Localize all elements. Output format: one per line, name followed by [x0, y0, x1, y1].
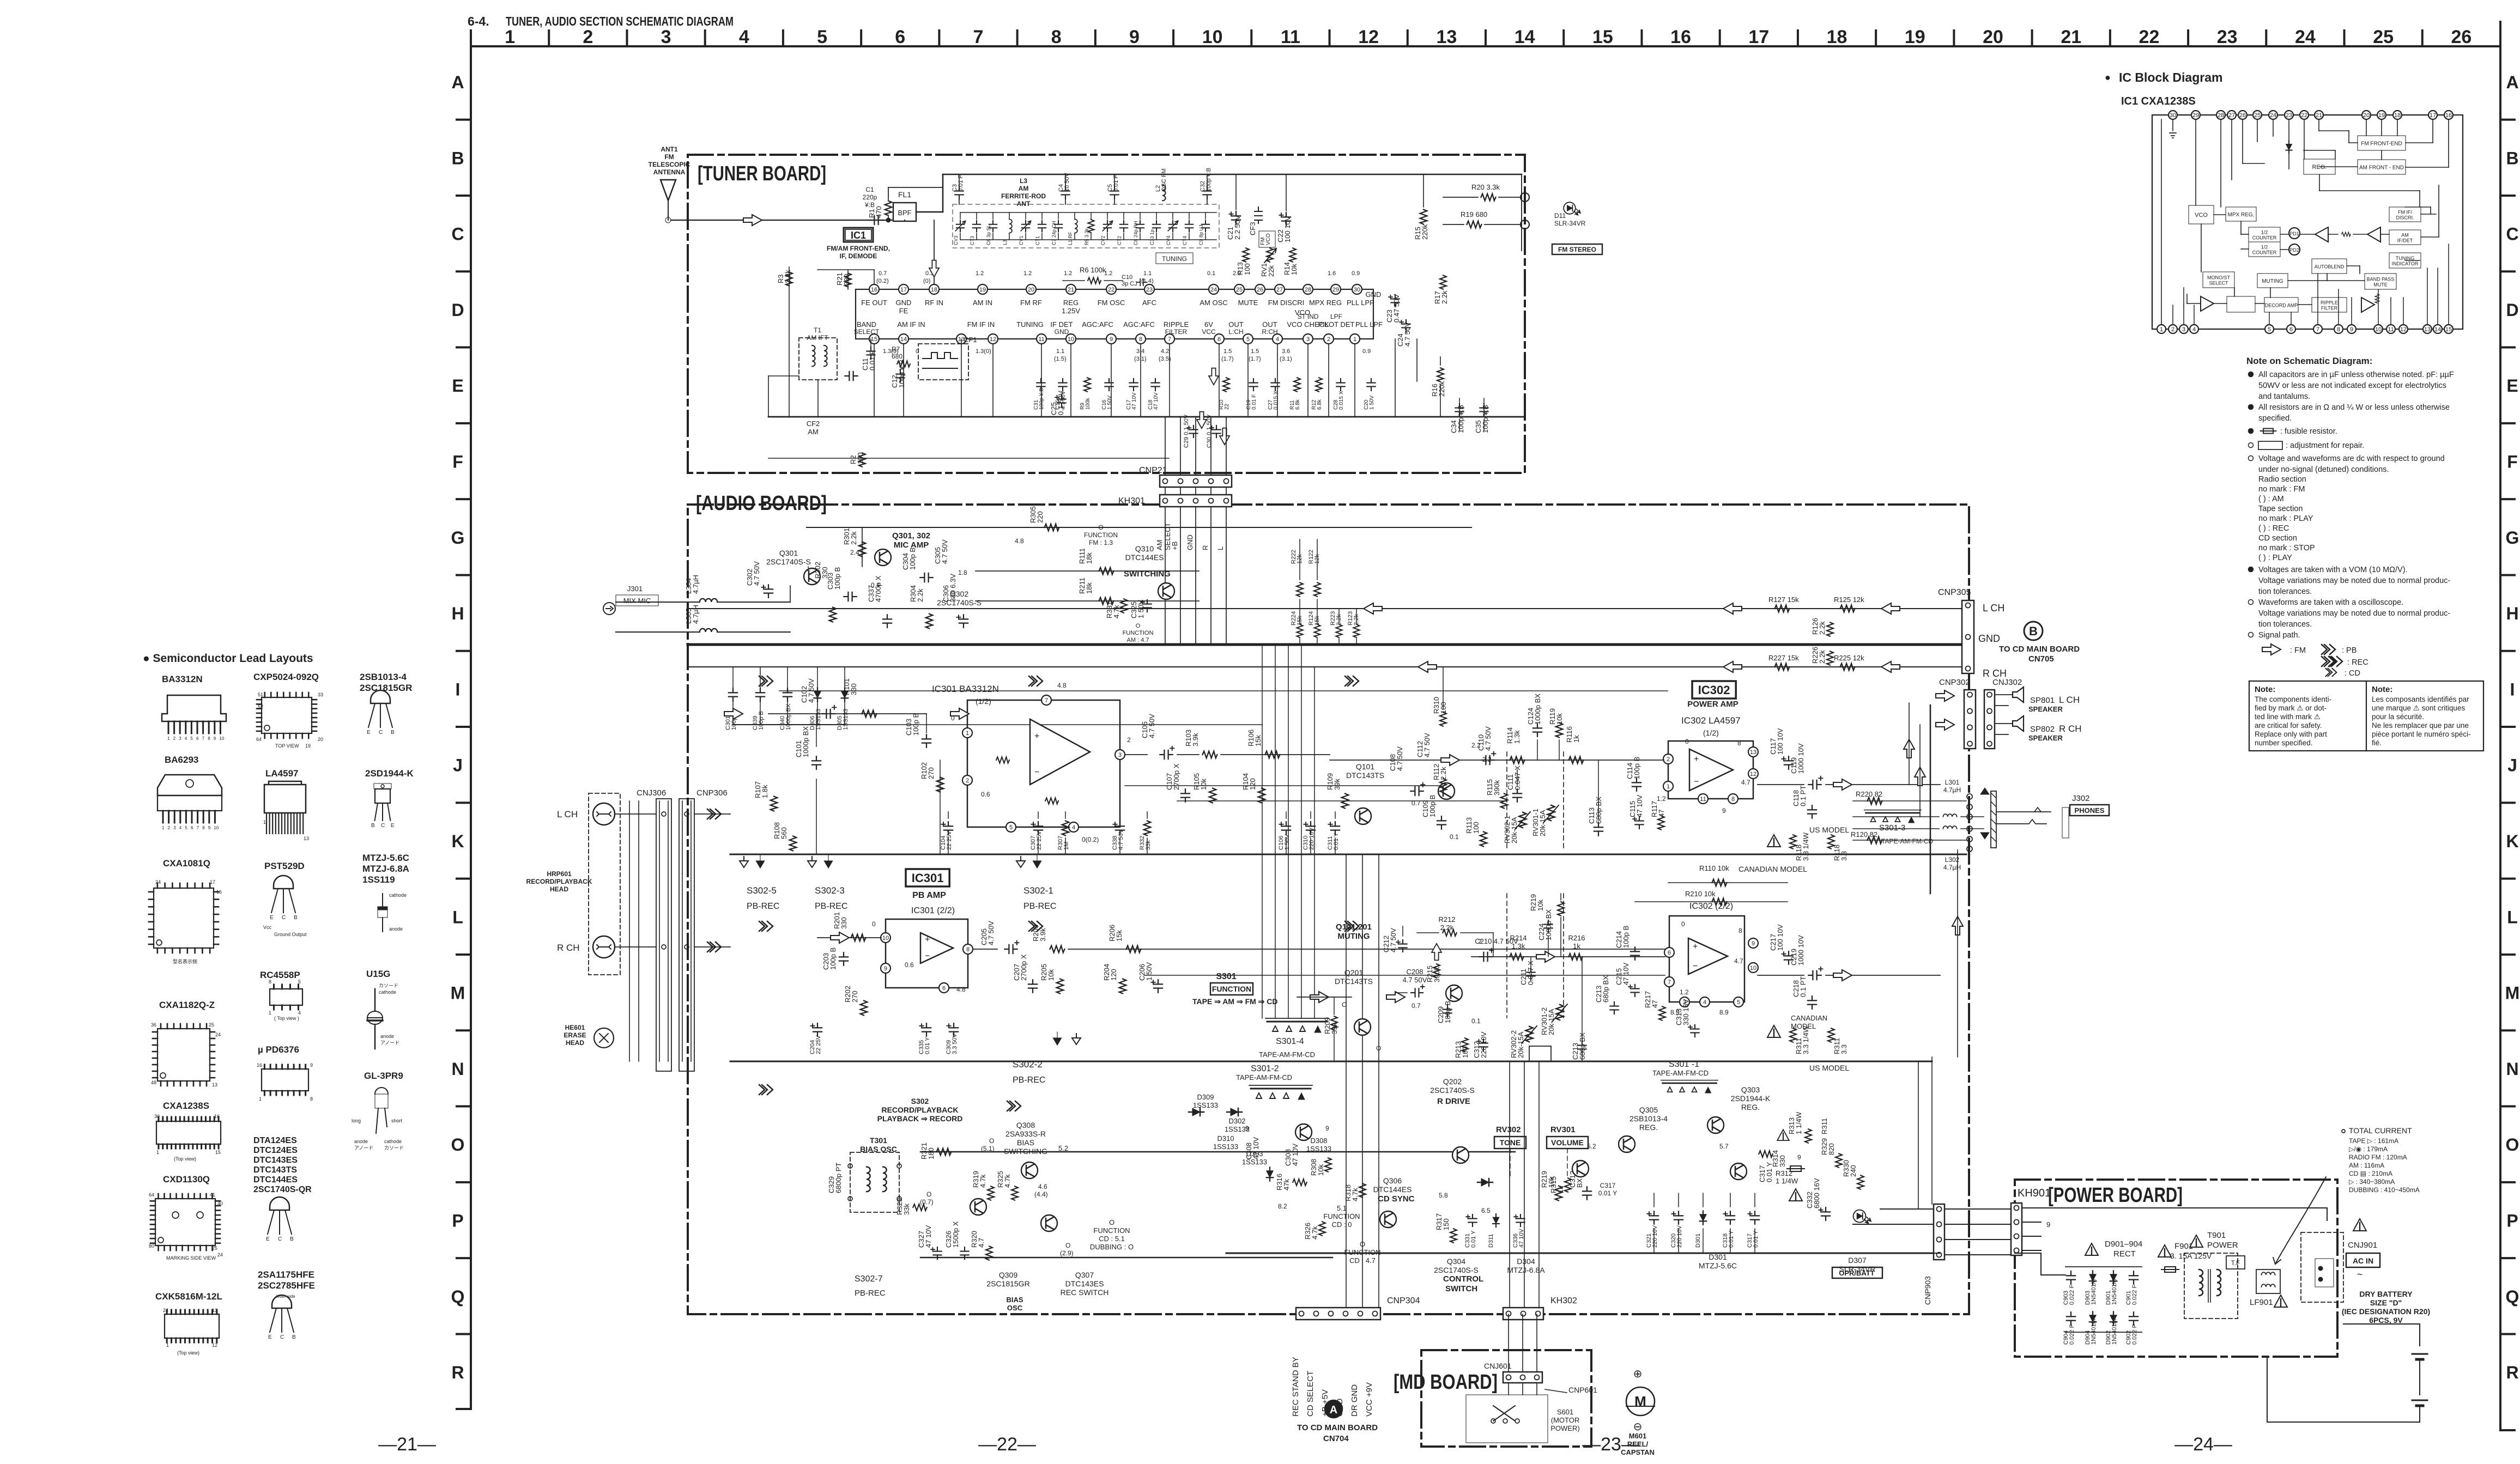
svg-text:RV302: RV302 — [1496, 1125, 1521, 1134]
svg-text:R311: R311 — [1820, 1118, 1828, 1134]
svg-text:CD ▤ : 210mA: CD ▤ : 210mA — [2349, 1170, 2392, 1177]
svg-text:2.9: 2.9 — [1233, 270, 1241, 277]
svg-text:anode: anode — [389, 926, 403, 932]
svg-text:CNP903: CNP903 — [1923, 1276, 1932, 1305]
svg-text:IF/DET: IF/DET — [2397, 238, 2413, 244]
svg-text:(3.5): (3.5) — [1159, 356, 1171, 362]
svg-text:VOLUME: VOLUME — [1551, 1138, 1584, 1147]
svg-text:E: E — [391, 823, 395, 829]
svg-text:CD section: CD section — [2258, 534, 2297, 543]
svg-text:MUTING: MUTING — [2262, 278, 2283, 284]
svg-text:CNJ302: CNJ302 — [1992, 678, 2022, 687]
svg-text:36: 36 — [151, 1022, 156, 1028]
svg-text:U15G: U15G — [366, 969, 390, 979]
svg-text:SELECT: SELECT — [2209, 281, 2228, 286]
svg-text:SWITCH: SWITCH — [1445, 1284, 1477, 1293]
svg-text:1.1: 1.1 — [1056, 348, 1064, 355]
svg-text:FM IF/: FM IF/ — [2398, 210, 2412, 215]
svg-text:C: C — [381, 823, 385, 829]
svg-text:22: 22 — [2301, 112, 2307, 119]
svg-text:2.2: 2.2 — [1471, 742, 1481, 749]
svg-text:GND: GND — [1366, 290, 1382, 299]
svg-text:FL1: FL1 — [898, 190, 911, 199]
svg-text:B: B — [294, 915, 298, 921]
svg-text:MUTE: MUTE — [2373, 282, 2388, 288]
svg-text:VCC: VCC — [1202, 328, 1216, 336]
svg-text:(3.1): (3.1) — [1280, 356, 1292, 362]
svg-text:D311: D311 — [1488, 1234, 1494, 1248]
svg-text:CD SYNC: CD SYNC — [1378, 1194, 1415, 1204]
svg-text:US MODEL: US MODEL — [1809, 825, 1849, 834]
svg-text:8: 8 — [310, 1096, 313, 1102]
svg-text:12: 12 — [212, 1342, 217, 1348]
svg-text:C3170.01 Y: C3170.01 Y — [1598, 1182, 1617, 1197]
svg-text:OPR/BATT: OPR/BATT — [1839, 1269, 1875, 1277]
svg-text:8: 8 — [1738, 927, 1742, 934]
svg-text:2SC2785HFE: 2SC2785HFE — [258, 1280, 315, 1291]
svg-text:CT2: CT2 — [1117, 236, 1122, 245]
svg-text:7: 7 — [1168, 336, 1171, 343]
svg-text:(4.4): (4.4) — [1034, 1190, 1048, 1198]
svg-text:5: 5 — [298, 979, 301, 985]
svg-text:0(0.2): 0(0.2) — [1082, 836, 1099, 843]
svg-text:Q: Q — [2506, 1287, 2519, 1307]
svg-text:LPF: LPF — [1330, 313, 1342, 320]
svg-text:6: 6 — [1217, 336, 1221, 343]
svg-text:(1.7): (1.7) — [1249, 356, 1261, 362]
svg-text:B: B — [391, 730, 395, 736]
svg-text:6: 6 — [1668, 950, 1671, 956]
svg-text:5.7: 5.7 — [1719, 1143, 1729, 1150]
svg-text:4: 4 — [179, 825, 182, 830]
svg-text:8: 8 — [208, 736, 210, 741]
svg-text:BA3312N: BA3312N — [162, 674, 203, 684]
svg-text:IC301 BA3312N: IC301 BA3312N — [932, 684, 999, 694]
svg-text:30: 30 — [2170, 112, 2176, 119]
svg-text:(0): (0) — [923, 278, 930, 284]
svg-text:RV301: RV301 — [1550, 1125, 1576, 1134]
svg-text:C2061 50V: C2061 50V — [1138, 962, 1153, 981]
svg-text:16: 16 — [216, 889, 222, 895]
svg-text:11: 11 — [2388, 326, 2394, 333]
svg-text:20: 20 — [318, 737, 323, 742]
svg-text:TAPE-AM-FM-CD: TAPE-AM-FM-CD — [1259, 1050, 1315, 1059]
svg-text:24: 24 — [2270, 112, 2276, 119]
svg-text:Note:: Note: — [2372, 685, 2392, 694]
svg-text:cathode: cathode — [389, 892, 407, 898]
svg-text:9: 9 — [1245, 1125, 1249, 1132]
svg-text:—22—: —22— — [978, 1434, 1036, 1455]
svg-text:FE: FE — [899, 307, 908, 315]
svg-text:PD2: PD2 — [2289, 247, 2299, 253]
svg-text:J: J — [453, 756, 463, 775]
svg-text:4.8: 4.8 — [1057, 682, 1067, 689]
svg-text:R126.8k: R126.8k — [1311, 399, 1323, 410]
svg-text:: REC: : REC — [2347, 658, 2368, 667]
svg-text:CF2AM: CF2AM — [807, 420, 820, 436]
svg-text:E: E — [266, 1236, 270, 1242]
svg-text:I: I — [456, 679, 461, 699]
svg-text:GND: GND — [1978, 633, 2000, 644]
svg-text:CN704: CN704 — [1323, 1434, 1349, 1443]
svg-text:P: P — [452, 1211, 463, 1231]
svg-text:TUNING: TUNING — [1162, 255, 1187, 263]
svg-text:( Top view ): ( Top view ) — [274, 1016, 299, 1021]
svg-text:51: 51 — [258, 692, 263, 697]
svg-text:A: A — [451, 72, 464, 92]
svg-text:1/2: 1/2 — [2261, 230, 2268, 235]
svg-text:R6 100k: R6 100k — [1080, 266, 1106, 274]
svg-text:D901–904: D901–904 — [2105, 1240, 2142, 1249]
svg-text:R CH: R CH — [2059, 724, 2082, 734]
svg-text:23: 23 — [2286, 112, 2292, 119]
svg-text:10: 10 — [1068, 336, 1074, 343]
svg-text:Ne les remplacer que par une: Ne les remplacer que par une — [2372, 721, 2469, 730]
svg-text:4: 4 — [185, 736, 187, 741]
svg-text:9: 9 — [1110, 336, 1113, 343]
svg-text:POWER: POWER — [2207, 1241, 2238, 1250]
svg-text:R110 10k: R110 10k — [1699, 864, 1729, 872]
svg-text:AGC:AFC: AGC:AFC — [1123, 320, 1155, 329]
svg-text:3.4: 3.4 — [1136, 348, 1144, 355]
svg-text:FM STEREO: FM STEREO — [1558, 246, 1596, 253]
svg-text:10: 10 — [1202, 27, 1223, 47]
svg-text:16: 16 — [2445, 112, 2452, 119]
svg-text:DUBBING : 410~450mA: DUBBING : 410~450mA — [2349, 1186, 2420, 1194]
svg-text:TOTAL CURRENT: TOTAL CURRENT — [2349, 1126, 2412, 1135]
svg-text:25: 25 — [212, 1246, 217, 1251]
svg-text:letter side: letter side — [276, 1294, 295, 1299]
svg-text:0: 0 — [1681, 920, 1685, 928]
svg-text:H: H — [2506, 604, 2518, 623]
svg-text:2: 2 — [168, 825, 171, 830]
svg-text:no mark : STOP: no mark : STOP — [2258, 544, 2315, 552]
svg-text:Note:: Note: — [2255, 685, 2275, 694]
svg-text:20: 20 — [1028, 287, 1034, 293]
svg-text:9: 9 — [310, 1062, 313, 1068]
svg-text:TAPE ▷ : 161mA: TAPE ▷ : 161mA — [2349, 1137, 2398, 1145]
svg-text:AC IN: AC IN — [2353, 1256, 2373, 1265]
svg-text:R115390k: R115390k — [1486, 779, 1501, 795]
svg-text:1.2: 1.2 — [1680, 988, 1689, 996]
svg-text:8.9: 8.9 — [1719, 1009, 1729, 1016]
svg-text:4.2: 4.2 — [1161, 348, 1169, 355]
svg-text:−: − — [1034, 768, 1039, 777]
svg-text:CD SELECT: CD SELECT — [1306, 1371, 1315, 1417]
svg-text:PHONES: PHONES — [2075, 806, 2105, 815]
svg-text:64: 64 — [256, 737, 262, 742]
svg-text:13: 13 — [2424, 326, 2431, 333]
svg-text:1: 1 — [2160, 326, 2163, 333]
svg-text:TUNING: TUNING — [1016, 320, 1044, 329]
svg-text:[AUDIO BOARD]: [AUDIO BOARD] — [696, 492, 827, 515]
svg-text:50WV or less are not indic: 50WV or less are not indicated except fo… — [2258, 381, 2446, 390]
svg-text:RF IN: RF IN — [925, 299, 943, 307]
svg-text:カソード: カソード — [379, 983, 398, 988]
svg-text:R1410k: R1410k — [1283, 262, 1298, 275]
svg-text:AM FRONT - END: AM FRONT - END — [2359, 165, 2404, 171]
svg-text:15: 15 — [1592, 27, 1613, 47]
svg-text:Waveforms are taken with a osc: Waveforms are taken with a oscilloscope. — [2258, 598, 2403, 607]
svg-text:O: O — [1376, 1044, 1381, 1052]
svg-text:RADIO FM : 120mA: RADIO FM : 120mA — [2349, 1153, 2407, 1161]
svg-text:DTC124ES: DTC124ES — [253, 1146, 298, 1155]
svg-text:C9 8p UJ: C9 8p UJ — [1198, 224, 1204, 245]
svg-text:9: 9 — [1129, 27, 1140, 47]
svg-text:29: 29 — [1332, 287, 1339, 293]
svg-text:Q301, 302MIC AMP: Q301, 302MIC AMP — [892, 531, 930, 550]
svg-text:L: L — [2507, 907, 2518, 927]
svg-text:G: G — [2506, 528, 2519, 548]
svg-text:1SS119: 1SS119 — [362, 874, 395, 885]
svg-text:22: 22 — [1108, 287, 1114, 293]
svg-text:9: 9 — [1722, 807, 1726, 815]
svg-text:● Semiconductor Lead Layouts: ● Semiconductor Lead Layouts — [143, 652, 313, 665]
svg-text:R DRIVE: R DRIVE — [1437, 1097, 1470, 1106]
svg-text:5.2: 5.2 — [1587, 1143, 1596, 1150]
svg-text:FM OSC: FM OSC — [1098, 299, 1125, 307]
svg-text:13: 13 — [212, 1082, 217, 1088]
svg-text:0.9: 0.9 — [1362, 348, 1371, 355]
svg-text:RECT: RECT — [2113, 1249, 2136, 1259]
svg-text:4: 4 — [739, 27, 749, 47]
svg-text:under no-signal (detuned) cond: under no-signal (detuned) conditions. — [2258, 465, 2389, 474]
svg-text:28: 28 — [1305, 287, 1311, 293]
svg-text:FM IF IN: FM IF IN — [967, 320, 995, 329]
svg-text:( ) : PLAY: ( ) : PLAY — [2258, 554, 2292, 562]
svg-text:0.1: 0.1 — [1450, 833, 1459, 841]
svg-text:8: 8 — [1731, 796, 1735, 803]
svg-text:INDICATOR: INDICATOR — [2392, 261, 2419, 266]
svg-text:12: 12 — [1750, 771, 1756, 777]
svg-text:fié.: fié. — [2372, 739, 2382, 747]
svg-text:(1/2): (1/2) — [976, 697, 991, 706]
svg-text:O: O — [926, 1190, 931, 1198]
svg-text:7: 7 — [973, 27, 984, 47]
svg-text:CXD1130Q: CXD1130Q — [163, 1174, 210, 1184]
svg-text:2SC1740S-QR: 2SC1740S-QR — [253, 1185, 312, 1194]
svg-text:DECORD AMP: DECORD AMP — [2265, 303, 2298, 308]
svg-text:ted line with mark ⚠: ted line with mark ⚠ — [2255, 713, 2321, 721]
svg-text:0.9: 0.9 — [1352, 270, 1360, 277]
svg-text:+: + — [1034, 732, 1039, 741]
svg-text:7: 7 — [202, 736, 205, 741]
svg-text:specified.: specified. — [2258, 414, 2292, 423]
svg-text:13: 13 — [304, 836, 309, 841]
svg-text:AM OSC: AM OSC — [1200, 299, 1227, 307]
svg-text:S301 -1: S301 -1 — [1669, 1060, 1699, 1069]
svg-text:L CH: L CH — [2059, 695, 2080, 705]
svg-text:7: 7 — [1668, 979, 1671, 986]
svg-text:MTZJ-6.8A: MTZJ-6.8A — [362, 864, 409, 874]
svg-text:1: 1 — [966, 730, 969, 737]
svg-text:: FM: : FM — [2290, 646, 2306, 655]
svg-text:CNP21: CNP21 — [1139, 466, 1167, 475]
svg-text:CV3: CV3 — [953, 235, 959, 245]
svg-text:52: 52 — [258, 704, 263, 709]
svg-text:AUTOBLEND: AUTOBLEND — [2315, 264, 2345, 270]
svg-text:CT4: CT4 — [1182, 236, 1188, 245]
svg-text:AM: AM — [1155, 540, 1164, 551]
svg-text:N: N — [451, 1059, 464, 1079]
svg-text:T901: T901 — [2207, 1231, 2226, 1240]
svg-text:R CH: R CH — [557, 943, 580, 953]
svg-text:4: 4 — [1276, 336, 1279, 343]
svg-text:Voltages are taken with a VOM: Voltages are taken with a VOM (10 MΩ/V). — [2258, 566, 2408, 574]
svg-text:TO CD MAIN BOARD: TO CD MAIN BOARD — [1297, 1423, 1378, 1432]
svg-text:LF901: LF901 — [2250, 1298, 2273, 1307]
svg-text:S301-2: S301-2 — [1251, 1064, 1279, 1073]
svg-text:KH302: KH302 — [1550, 1296, 1577, 1305]
svg-text:2SB1013-4: 2SB1013-4 — [360, 672, 407, 682]
svg-text:3: 3 — [1118, 752, 1122, 758]
svg-text:KH301: KH301 — [1118, 496, 1145, 506]
svg-text:A: A — [1330, 1404, 1337, 1416]
svg-text:J: J — [2507, 756, 2517, 775]
svg-text:B: B — [2029, 624, 2038, 638]
svg-text:14: 14 — [900, 336, 907, 343]
svg-text:( ) : REC: ( ) : REC — [2258, 524, 2289, 533]
svg-text:24: 24 — [163, 1308, 168, 1313]
svg-text:1: 1 — [166, 1342, 169, 1348]
svg-text:VCC +9V: VCC +9V — [1365, 1382, 1374, 1417]
svg-text:19: 19 — [1905, 27, 1925, 47]
svg-text:5: 5 — [2268, 326, 2271, 333]
svg-text:PB AMP: PB AMP — [912, 891, 946, 900]
svg-text:cathode: cathode — [379, 989, 396, 995]
svg-text:30: 30 — [1354, 287, 1360, 293]
svg-text:KH901: KH901 — [2018, 1187, 2051, 1199]
svg-text:BAND PASS: BAND PASS — [2367, 277, 2395, 282]
svg-text:CNP306: CNP306 — [696, 788, 728, 798]
svg-text:TONE: TONE — [1500, 1138, 1521, 1147]
svg-text:16: 16 — [871, 287, 877, 293]
svg-text:14: 14 — [2434, 326, 2441, 333]
svg-text:L:CH: L:CH — [1228, 328, 1243, 336]
svg-text:O: O — [989, 1137, 994, 1145]
svg-text:IC301 (2/2): IC301 (2/2) — [911, 906, 955, 915]
svg-text:FILTER: FILTER — [1165, 328, 1188, 336]
svg-text:CXA1081Q: CXA1081Q — [163, 858, 210, 868]
svg-text:17: 17 — [210, 879, 215, 885]
svg-text:L: L — [1216, 546, 1225, 550]
svg-text:IC Block Diagram: IC Block Diagram — [2119, 70, 2222, 84]
svg-text:C: C — [280, 1334, 284, 1340]
svg-text:CXK5816M-12L: CXK5816M-12L — [155, 1291, 222, 1302]
svg-text:POWER AMP: POWER AMP — [1687, 700, 1738, 709]
svg-text:12: 12 — [990, 336, 996, 343]
svg-text:9: 9 — [2046, 1220, 2050, 1229]
svg-text:4: 4 — [298, 1010, 301, 1016]
svg-text:PD1: PD1 — [2289, 231, 2299, 236]
svg-text:8: 8 — [1737, 739, 1741, 747]
svg-text:1.25V: 1.25V — [1062, 307, 1080, 315]
svg-text:VCO: VCO — [2195, 212, 2208, 218]
svg-text:L CH: L CH — [1983, 603, 2004, 613]
svg-text:9: 9 — [1752, 940, 1755, 947]
svg-text:PILOT DET: PILOT DET — [1318, 320, 1355, 329]
svg-text:C: C — [282, 915, 286, 921]
svg-text:R: R — [2506, 1363, 2518, 1382]
svg-text:6-4.: 6-4. — [468, 14, 489, 28]
svg-text:9: 9 — [214, 736, 216, 741]
svg-text:33: 33 — [318, 692, 323, 697]
svg-text:680: 680 — [892, 353, 902, 360]
svg-text:R: R — [451, 1363, 464, 1382]
svg-text:25: 25 — [2373, 27, 2394, 47]
svg-text:1.5: 1.5 — [1223, 348, 1232, 355]
svg-text:R20 3.3k: R20 3.3k — [1471, 183, 1500, 191]
svg-text:8: 8 — [2337, 326, 2340, 333]
svg-text:tion tolerances.: tion tolerances. — [2258, 587, 2312, 596]
svg-text:AM : 116mA: AM : 116mA — [2349, 1162, 2384, 1169]
svg-text:CT3: CT3 — [970, 236, 975, 245]
svg-text:13: 13 — [1436, 27, 1457, 47]
svg-text:1.2: 1.2 — [1104, 270, 1112, 277]
svg-text:MUTE: MUTE — [1238, 299, 1258, 307]
svg-text:CNP302: CNP302 — [1939, 678, 1970, 687]
svg-text:18: 18 — [1827, 27, 1847, 47]
svg-text:10: 10 — [1750, 965, 1756, 971]
svg-text:0.7: 0.7 — [879, 270, 887, 277]
svg-text:6: 6 — [196, 736, 199, 741]
svg-text:IC1 CXA1238S: IC1 CXA1238S — [2121, 95, 2196, 107]
svg-text:16: 16 — [257, 1062, 262, 1068]
svg-text:—21—: —21— — [378, 1434, 436, 1455]
svg-text:CNP601: CNP601 — [1568, 1386, 1597, 1394]
svg-text:0.4: 0.4 — [871, 581, 880, 589]
svg-text:K: K — [451, 831, 464, 851]
svg-text:MONO/ST: MONO/ST — [2207, 275, 2231, 281]
svg-text:cathode: cathode — [384, 1139, 402, 1144]
svg-text:S302-1: S302-1 — [1023, 885, 1053, 896]
svg-text:G: G — [451, 528, 465, 548]
svg-text:6.5: 6.5 — [1481, 1207, 1491, 1214]
svg-text:6: 6 — [2289, 326, 2293, 333]
svg-text:3p CJ: 3p CJ — [1122, 281, 1137, 287]
svg-text:J301: J301 — [627, 585, 643, 593]
svg-text:E: E — [268, 1334, 272, 1340]
svg-text:17: 17 — [2430, 112, 2436, 119]
svg-text:R227 15k: R227 15k — [1768, 654, 1799, 662]
svg-text:1: 1 — [263, 819, 266, 825]
svg-text:HE601ERASEHEAD: HE601ERASEHEAD — [564, 1024, 586, 1047]
svg-text:ST IND: ST IND — [1297, 313, 1318, 320]
svg-text:C33 1p: C33 1p — [1149, 229, 1155, 245]
svg-text:24: 24 — [215, 1032, 221, 1037]
svg-text:D: D — [451, 300, 464, 320]
svg-text:DTC143ES: DTC143ES — [253, 1156, 298, 1165]
svg-text:R5 3.3k: R5 3.3k — [1084, 228, 1089, 245]
svg-text:15: 15 — [215, 1150, 221, 1155]
svg-text:S302-5: S302-5 — [747, 885, 777, 896]
svg-text:MPX REG,: MPX REG, — [2228, 212, 2255, 218]
svg-text:(Top view): (Top view) — [177, 1350, 199, 1356]
svg-text:2.4: 2.4 — [850, 549, 859, 556]
svg-text:−: − — [1694, 777, 1699, 787]
svg-text:5: 5 — [185, 825, 187, 830]
svg-text:24: 24 — [155, 879, 161, 885]
svg-text:PLL LPF: PLL LPF — [1355, 320, 1383, 329]
svg-text:1.2: 1.2 — [1064, 270, 1072, 277]
svg-text:1: 1 — [269, 1010, 271, 1016]
svg-text:AM IN: AM IN — [973, 299, 992, 307]
svg-text:DISCRI.: DISCRI. — [2396, 215, 2414, 221]
svg-text:OUT: OUT — [1228, 320, 1244, 329]
svg-text:3: 3 — [173, 825, 176, 830]
svg-text:●: ● — [2105, 72, 2111, 83]
svg-text:F: F — [2507, 452, 2518, 472]
